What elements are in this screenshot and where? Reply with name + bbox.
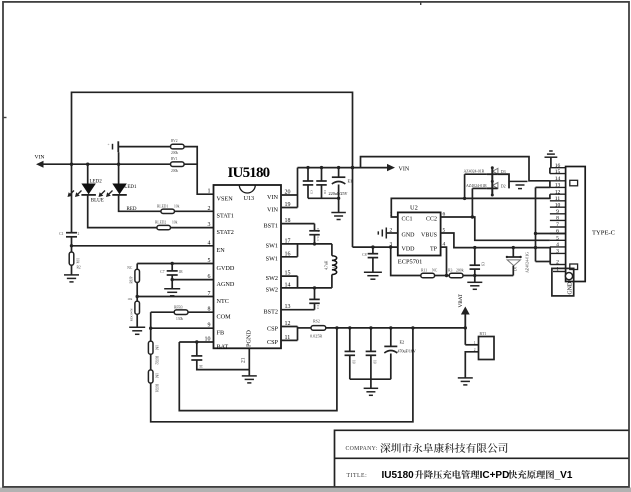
wire LED1 cathode to RLED1 [119,195,161,211]
svg-text:4: 4 [556,242,559,248]
capacitor C8 [372,247,374,254]
svg-text:C6: C6 [323,190,327,194]
svg-text:BST2: BST2 [264,309,278,316]
ground (RDOWN) [129,326,145,328]
svg-text:VBAT: VBAT [458,293,464,307]
wire U2 GND [386,232,398,234]
wire BST2 [281,309,315,311]
svg-text:NTC: NTC [217,298,229,305]
svg-text:10: 10 [555,202,561,208]
svg-text:RV2: RV2 [171,139,178,143]
svg-text:1M: 1M [155,373,159,379]
wire COM [151,311,174,313]
svg-text:15: 15 [555,169,561,175]
wire VBAT rail [326,327,466,329]
ground (BT1) [458,377,473,379]
svg-text:3: 3 [556,249,559,255]
svg-text:L1: L1 [333,264,337,268]
svg-text:_V1: _V1 [554,470,573,481]
resistor RDOWN [136,297,138,302]
wire pin4-3-2 bus [536,261,551,263]
wire TYPE-C gnd top [545,156,558,158]
svg-text:0.025R: 0.025R [310,334,322,339]
wire D2 anode to CC2 [472,187,487,189]
svg-text:BAT: BAT [217,343,229,350]
svg-text:1M: 1M [155,345,159,351]
svg-text:COM: COM [217,314,232,321]
wire C7 to AGND/ground [171,275,173,289]
svg-text:SW2: SW2 [266,287,278,294]
wire CSP bus [281,326,298,328]
TYPE-C shell GND box [552,268,574,296]
svg-text:12: 12 [555,189,561,195]
svg-text:10: 10 [351,360,355,364]
wire CC2 [441,217,550,240]
svg-text:RFB3: RFB3 [174,305,183,309]
capacitor C6 [321,168,323,181]
ground (R2) [64,274,79,276]
wire RLED2 to STAT2 [171,227,214,229]
svg-text:C9: C9 [481,262,485,266]
ground (C8) [364,271,382,273]
svg-text:9: 9 [208,323,211,329]
svg-text:8: 8 [208,307,211,313]
resistor RFB1 [150,354,152,371]
net label VBAT [464,314,466,328]
wire TYPE-C pin14-13 bus [549,181,551,188]
LED1 emission arrows [100,191,105,196]
svg-text:GND: GND [568,282,574,295]
capacitor C4 (input sense) [112,144,114,150]
svg-text:TITLE:: TITLE: [347,473,368,479]
resistor RFB2 [150,328,152,341]
wire VIN to C1 [71,164,73,233]
wire VBAT to BT1 [464,328,466,345]
wire VIN rail left [44,163,171,165]
svg-text:D2: D2 [501,183,506,188]
wire BT1 pin2 to ground [465,352,478,378]
connector BT1 [479,337,495,360]
wire RV2 to VSEN corner [184,147,197,165]
TYPE-C pin stubs [550,167,566,169]
svg-text:CC2: CC2 [426,217,437,223]
wire VIN arrow right [387,164,395,171]
svg-text:COMPANY:: COMPANY: [346,446,378,452]
svg-text:U2: U2 [410,205,418,212]
svg-text:C2: C2 [316,228,320,232]
wire NTC [137,296,213,298]
svg-text:BST1: BST1 [264,222,278,229]
svg-text:TP: TP [430,247,438,253]
wire FB [151,327,214,329]
border zone tick left [3,117,7,119]
capacitor E1 electrolytic [338,168,340,178]
capacitor C12 [370,328,372,352]
svg-text:3: 3 [208,222,211,228]
svg-text:2: 2 [78,232,80,236]
inductor L1 [331,244,333,256]
svg-text:RV1: RV1 [171,157,178,161]
capacitor C7 [171,264,173,271]
svg-text:21: 21 [241,357,247,363]
svg-text:10k: 10k [174,204,180,208]
svg-text:4: 4 [208,240,211,246]
resistor R11 [421,273,435,278]
svg-text:RUP: RUP [129,277,133,284]
LED2 (BLUE) [86,163,89,166]
wire TP [441,247,447,275]
svg-text:14: 14 [555,176,561,182]
wire TYPE-C pin16-15 bus [549,168,551,174]
wire C10 to PGND [197,360,250,370]
svg-text:D1: D1 [514,266,518,271]
grey strip bottom [0,488,631,492]
wire AGND [172,279,213,281]
wire GVDD [137,263,213,265]
svg-text:AZ4024-01G: AZ4024-01G [526,252,530,273]
svg-text:C1: C1 [59,232,63,236]
wire CC1 [391,194,550,217]
svg-text:C7: C7 [160,270,164,274]
svg-text:PGND: PGND [246,330,253,347]
svg-text:ECP5701: ECP5701 [398,259,423,266]
svg-text:2: 2 [208,206,211,212]
LED2 emission arrows [69,191,74,196]
TYPE-C mounting hole [565,273,572,280]
svg-text:200k: 200k [456,269,464,273]
resistor RFB3 [174,310,188,315]
svg-text:U13: U13 [244,195,255,202]
border zone tick top [420,2,422,6]
svg-text:IC+PD: IC+PD [480,470,510,481]
wire cap to RV2 [118,146,170,148]
wire VIN pins bus [281,194,298,196]
svg-text:5: 5 [556,236,559,242]
svg-text:C8: C8 [362,253,366,257]
op-amp U13 IU5180 body [214,185,282,348]
svg-text:13: 13 [555,183,561,189]
svg-text:470uF/16V: 470uF/16V [398,349,416,354]
svg-text:NC: NC [127,266,133,270]
svg-text:11: 11 [555,196,561,202]
ground (VIN caps) [331,212,346,214]
svg-text:STAT2: STAT2 [217,229,234,236]
svg-text:VIN: VIN [35,155,45,161]
ground (AGND) [164,288,180,290]
svg-text:+: + [108,143,110,147]
svg-text:VDD: VDD [402,247,416,253]
svg-text:0.1: 0.1 [316,237,320,242]
svg-text:VIN: VIN [267,206,279,213]
wire RUP to NTC [136,282,138,297]
svg-text:AZ4024-01R: AZ4024-01R [464,170,485,174]
svg-text:RLED1: RLED1 [157,204,168,208]
title block frame [335,430,629,486]
svg-text:VSEN: VSEN [217,196,234,203]
wire SW1 [281,243,332,245]
resistor RUP [136,264,138,270]
wire D3 anode to CC1 [465,173,487,175]
capacitor C11 [349,328,351,352]
wire RFB1 to VBAT node [151,328,413,422]
svg-text:10k: 10k [172,221,178,225]
svg-text:EN: EN [217,247,226,254]
svg-text:1: 1 [474,341,476,345]
wire R11 to R3 [435,275,450,277]
svg-text:RS2: RS2 [313,318,320,323]
svg-text:SW1: SW1 [266,243,278,250]
wire BAT loop to VBAT node [179,328,337,411]
resistor RV1 [171,162,185,167]
wire top loop [72,92,353,247]
title block company name [380,443,507,453]
svg-text:SW1: SW1 [266,256,278,263]
svg-text:10: 10 [372,360,376,364]
svg-text:1: 1 [208,189,211,195]
capacitor C3 (BST2) [314,288,316,300]
wire VIN vertical to VDD [351,166,354,169]
svg-text:6: 6 [208,274,211,280]
svg-text:9: 9 [556,209,559,215]
svg-text:R2: R2 [77,266,81,270]
svg-text:RFB1: RFB1 [155,384,159,393]
svg-text:SW2: SW2 [266,275,278,282]
resistor RV2 [171,144,185,149]
wire PGND pin 21 [248,348,250,369]
wire pin6 branch [536,233,566,235]
svg-text:8: 8 [556,216,559,222]
diode D1 AZ4024-01G [512,248,514,257]
wire R11 rail [391,247,421,275]
ground (PGND) [242,375,257,377]
svg-text:IU5180: IU5180 [228,165,270,181]
svg-text:10k: 10k [127,297,132,301]
ground (TVS) [513,180,528,182]
svg-text:6: 6 [556,229,559,235]
wire caps bottom bus [308,197,339,199]
svg-text:R11: R11 [421,269,427,273]
svg-text:4.7uH: 4.7uH [325,260,329,270]
svg-text:10: 10 [205,337,211,343]
svg-text:C5: C5 [310,190,314,194]
wire BST1 [281,223,315,225]
svg-text:1R: 1R [179,270,184,274]
svg-text:BT1: BT1 [480,332,487,336]
svg-text:VBUS: VBUS [421,233,437,239]
svg-text:FB: FB [217,330,225,337]
svg-text:IU5180: IU5180 [382,470,415,481]
wire BAT [179,341,213,343]
wire LED2 cathode to RLED2 [88,195,157,228]
svg-text:GND: GND [402,233,416,239]
wire RLED1 to STAT1 [175,210,214,212]
svg-text:AZ4024-01R: AZ4024-01R [466,184,487,188]
op-amp U2 ECP5701 body [398,212,441,255]
resistor R3 [449,273,463,278]
svg-text:BLUE: BLUE [91,199,104,204]
capacitor E2 electrolytic [390,328,392,347]
wire TYPE-C pin13 to VBUS vertical [536,186,550,188]
svg-text:E1: E1 [348,179,353,184]
capacitor C1 [66,232,77,234]
svg-text:C3: C3 [316,305,320,309]
resistor RLED1 [161,209,175,213]
svg-text:10k: 10k [76,258,80,264]
wire RV1 to VSEN corner [184,164,213,194]
wire R2 to ground [71,265,73,275]
capacitor C10 (BAT) [196,342,198,356]
svg-text:2: 2 [556,260,559,266]
svg-text:RDOWN: RDOWN [129,308,133,321]
svg-text:NC: NC [432,269,438,273]
svg-text:R3: R3 [448,269,453,273]
svg-text:CC1: CC1 [402,217,413,223]
svg-text:RFB2: RFB2 [155,356,159,365]
svg-text:CSP: CSP [267,325,279,332]
svg-text:7: 7 [208,291,211,297]
wire C1 to EN [71,237,73,246]
svg-text:VIN: VIN [399,166,410,172]
wire E1 to ground [338,185,340,213]
resistor R2 [71,246,73,252]
wire C8 to ground [372,258,374,273]
wire VIN top bus [298,167,388,169]
ground (VBAT caps) [370,379,372,388]
svg-text:STAT1: STAT1 [217,213,234,220]
svg-text:7: 7 [556,222,559,228]
capacitor C9 [474,248,476,266]
svg-text:5: 5 [208,258,211,264]
svg-text:VIN: VIN [267,194,279,201]
svg-text:RLED2: RLED2 [155,221,166,225]
wire TVS to ground hook [498,174,509,188]
svg-text:130k: 130k [176,317,183,321]
resistor RLED2 [157,225,171,229]
wire SW2 [331,275,333,288]
svg-text:TYPE-C: TYPE-C [592,230,616,237]
svg-text:AGND: AGND [217,281,235,288]
ground (VBUS node) [474,276,476,283]
ground (U2 GND) sideways [385,228,387,239]
wire R3 to ground node [463,275,513,277]
wire VBUS [441,233,550,248]
svg-text:200k: 200k [171,169,178,173]
wire VIN upper jog to TYPE-C [361,157,550,181]
wire CSP to RS2 [298,327,312,329]
resistor RS2 [311,326,326,331]
capacitor C5 [307,168,309,181]
connector J1 TYPE-C body [566,167,586,282]
wire caps bottom bus (VBAT) [350,378,391,380]
svg-text:GVDD: GVDD [217,265,235,272]
svg-text:10: 10 [199,365,203,369]
svg-text:E2: E2 [400,340,405,345]
capacitor C2 (BST1) [314,224,316,231]
wire TVS common bar [491,167,493,195]
svg-text:CSP: CSP [267,339,279,346]
wire RDOWN to ground [136,314,138,328]
svg-text:LED1: LED1 [124,185,137,190]
wire VDD [353,246,398,248]
wire EN [72,245,214,247]
LED1 (RED) [117,163,120,166]
svg-text:200k: 200k [171,151,178,155]
svg-text:LED2: LED2 [90,179,103,184]
wire COM to FB [150,312,152,328]
